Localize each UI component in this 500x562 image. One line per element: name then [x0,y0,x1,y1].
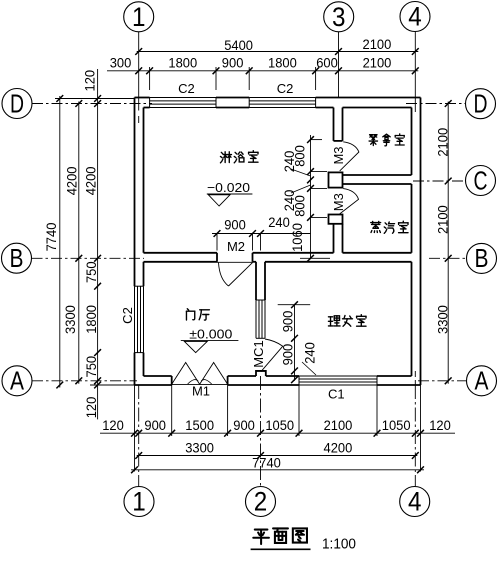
svg-text:2100: 2100 [436,128,451,157]
svg-text:4200: 4200 [65,167,80,196]
svg-text:900: 900 [280,311,295,333]
svg-text:4: 4 [408,2,422,32]
svg-text:7740: 7740 [252,455,281,470]
svg-text:M2: M2 [227,239,245,254]
svg-text:1050: 1050 [382,418,411,433]
svg-text:5400: 5400 [224,38,253,53]
svg-text:2: 2 [254,487,268,517]
svg-text:1050: 1050 [265,418,294,433]
svg-text:900: 900 [222,55,244,70]
svg-text:240: 240 [303,342,318,364]
svg-text:3300: 3300 [436,305,451,334]
svg-text:1800: 1800 [84,305,99,334]
svg-text:900: 900 [280,344,295,366]
svg-text:B: B [10,243,24,273]
svg-text:240: 240 [268,215,290,230]
svg-text:C2: C2 [277,81,294,96]
svg-text:120: 120 [82,70,97,92]
svg-text:−0.020: −0.020 [207,180,250,195]
svg-text:D: D [10,88,24,118]
svg-text:240: 240 [282,151,297,173]
svg-text:7740: 7740 [44,223,59,252]
svg-text:C2: C2 [178,81,195,96]
svg-text:1: 1 [132,2,146,32]
svg-text:1800: 1800 [168,55,197,70]
svg-text:4: 4 [408,487,422,517]
svg-text:C: C [474,165,488,195]
svg-text:4200: 4200 [324,440,353,455]
svg-text:1800: 1800 [268,55,297,70]
svg-text:2100: 2100 [436,205,451,234]
svg-text:C1: C1 [328,387,345,402]
svg-text:750: 750 [84,261,99,283]
svg-text:240: 240 [282,190,297,212]
svg-text:900: 900 [233,418,255,433]
svg-text:750: 750 [84,356,99,378]
svg-text:1500: 1500 [185,418,214,433]
svg-text:1: 1 [132,487,146,517]
svg-text:4200: 4200 [84,167,99,196]
svg-text:±0.000: ±0.000 [189,326,232,341]
svg-text:900: 900 [144,418,166,433]
svg-text:2100: 2100 [363,37,392,52]
svg-text:M3: M3 [331,193,346,211]
svg-text:3300: 3300 [63,305,78,334]
svg-text:120: 120 [84,397,99,419]
svg-text:B: B [475,243,489,273]
svg-text:300: 300 [110,55,132,70]
svg-text:D: D [474,89,488,119]
svg-text:MC1: MC1 [251,340,266,367]
svg-text:C2: C2 [120,307,135,324]
svg-text:600: 600 [316,55,338,70]
svg-text:900: 900 [224,218,246,233]
svg-text:M1: M1 [192,384,210,399]
svg-text:2100: 2100 [363,55,392,70]
svg-text:2100: 2100 [324,418,353,433]
svg-text:A: A [10,366,25,396]
svg-text:3: 3 [332,2,346,32]
svg-text:1060: 1060 [290,223,305,252]
svg-text:3300: 3300 [185,440,214,455]
svg-text:120: 120 [102,418,124,433]
svg-text:120: 120 [429,418,451,433]
svg-text:1:100: 1:100 [322,537,356,553]
svg-text:M3: M3 [331,146,346,164]
svg-text:A: A [475,366,490,396]
